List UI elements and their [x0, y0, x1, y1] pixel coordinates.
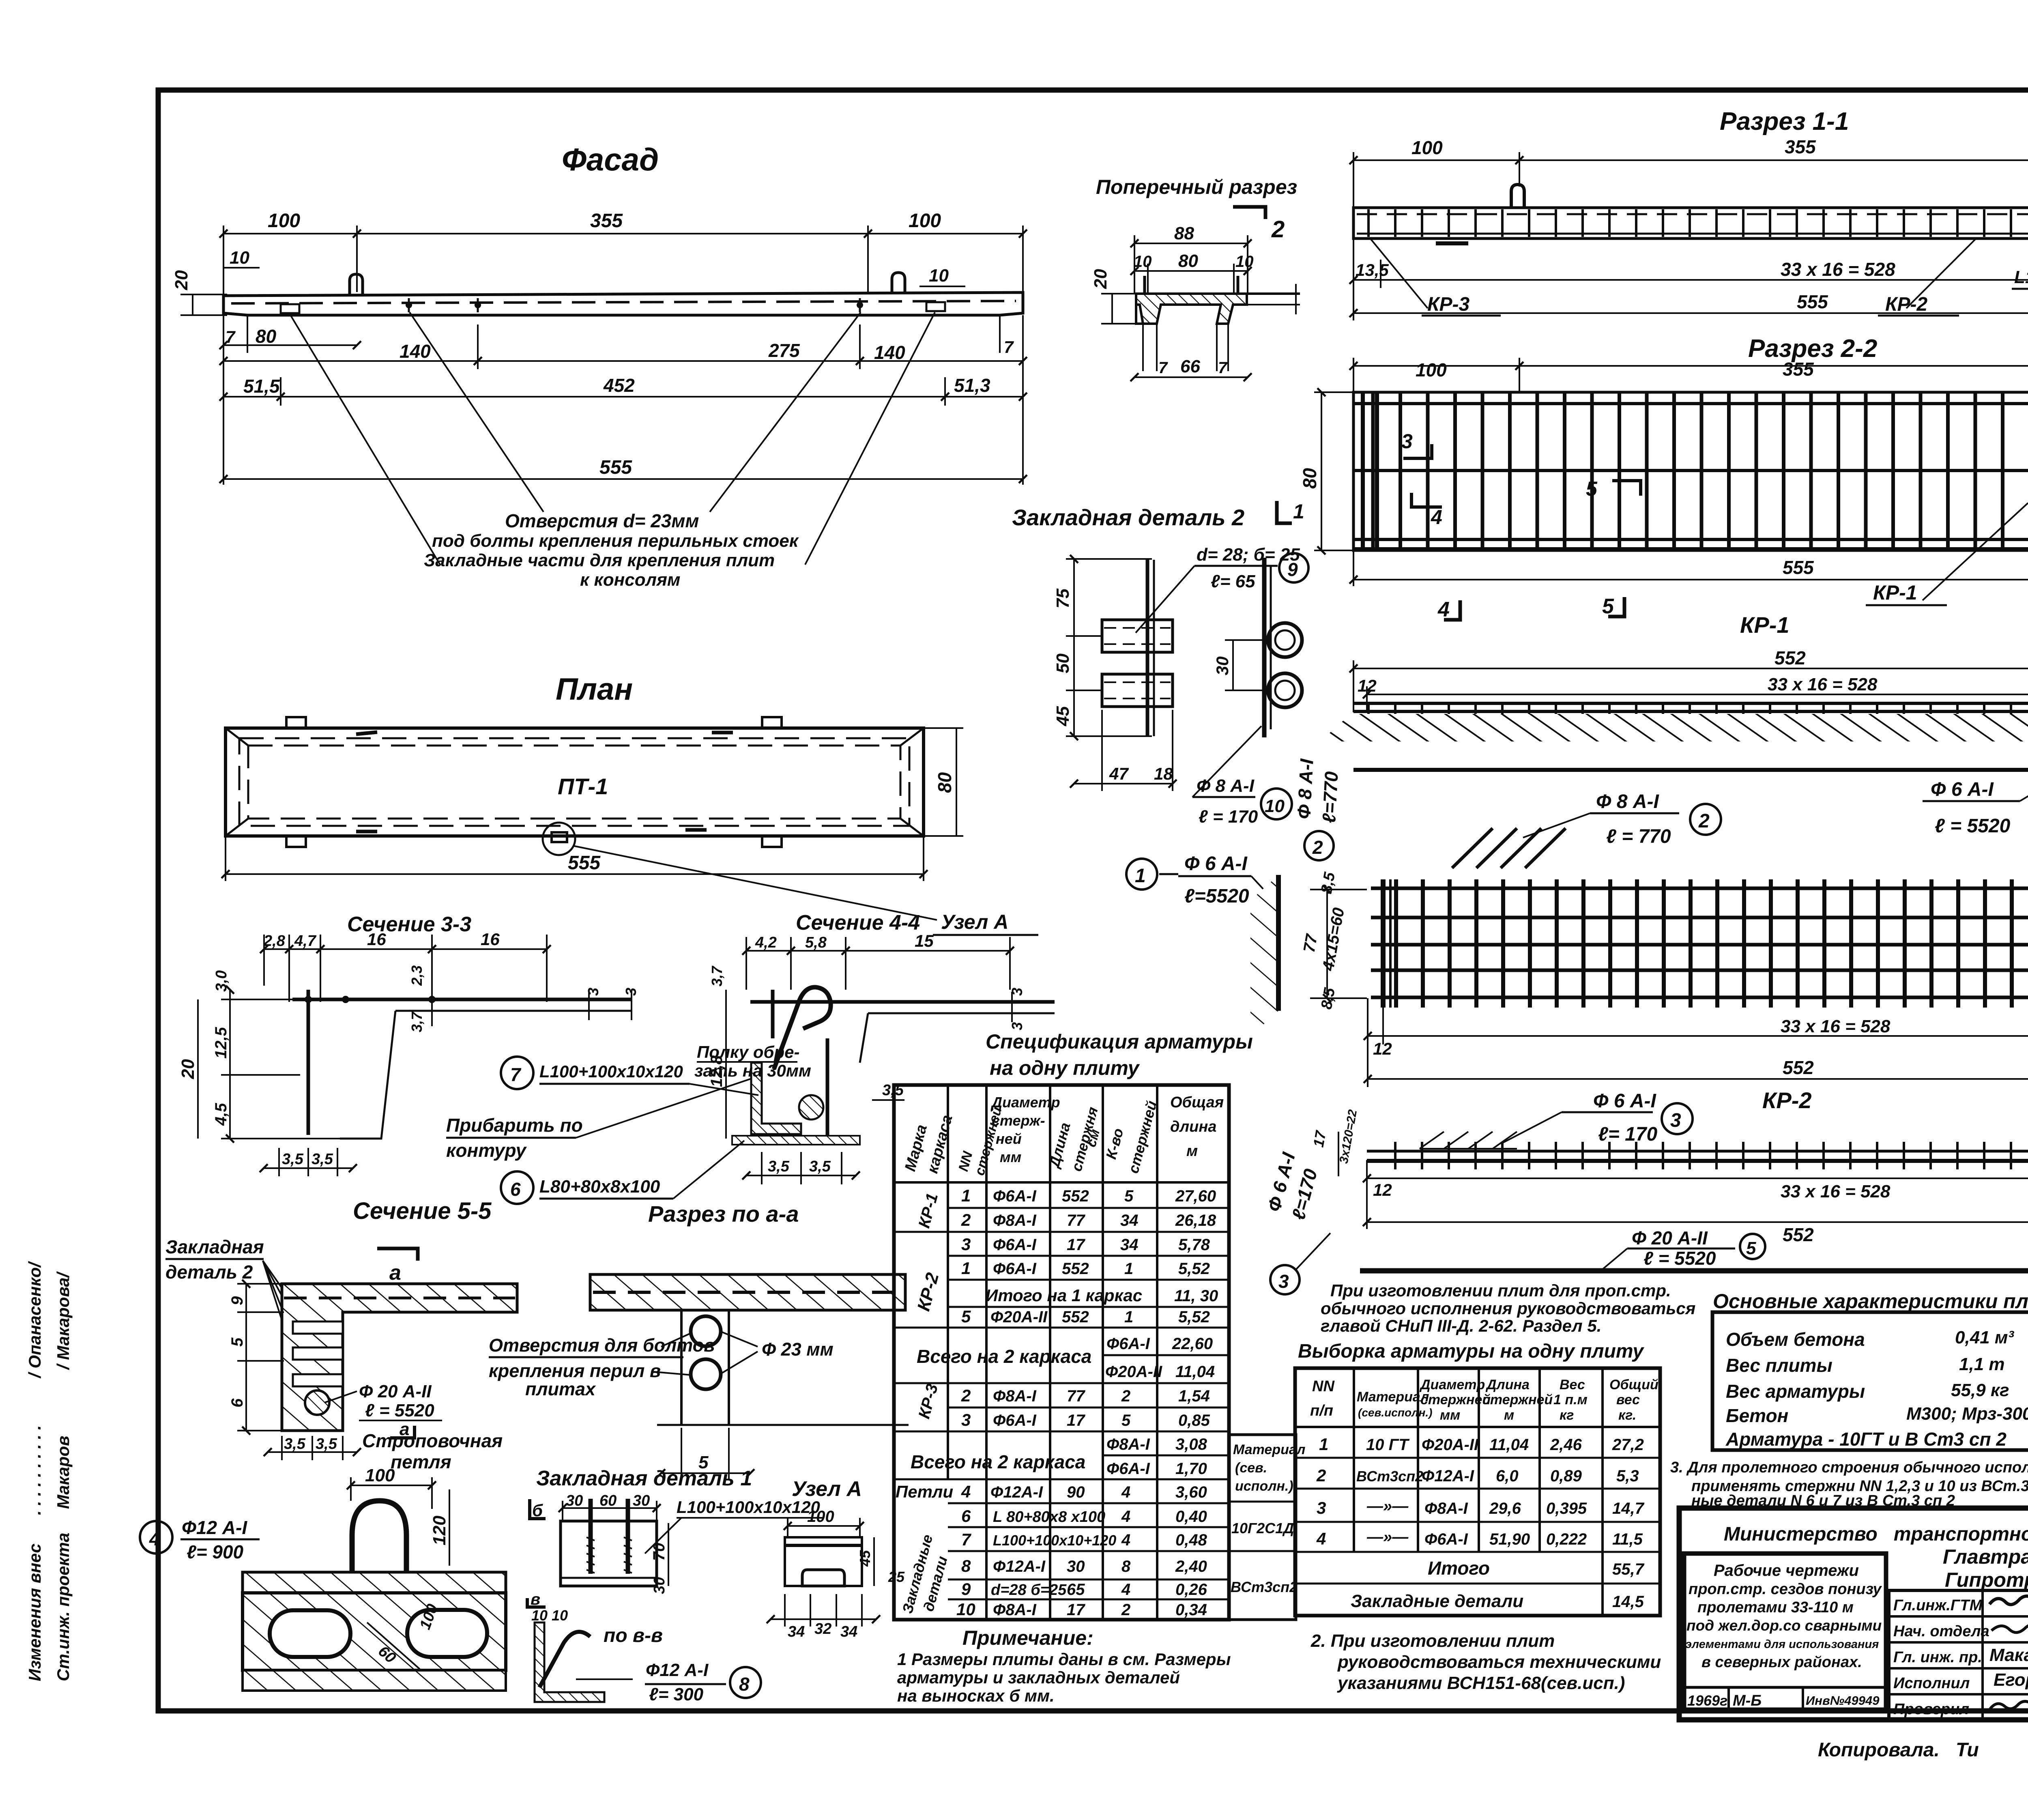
svg-text:55,9 кг: 55,9 кг	[1951, 1380, 2009, 1400]
svg-text:Закладная: Закладная	[165, 1236, 264, 1257]
svg-text:ℓ= 65: ℓ= 65	[1211, 572, 1255, 591]
svg-text:Сечение 5-5: Сечение 5-5	[353, 1198, 492, 1224]
svg-text:L100+100х10х120: L100+100х10х120	[2014, 267, 2028, 287]
svg-text:0,26: 0,26	[1175, 1581, 1207, 1599]
svg-text:под жел.дор.со сварными: под жел.дор.со сварными	[1686, 1617, 1882, 1634]
svg-text:деталь 2: деталь 2	[165, 1261, 253, 1283]
svg-text:Проверил: Проверил	[1893, 1701, 1969, 1718]
svg-text:50: 50	[1053, 653, 1073, 673]
strip chord double line	[1367, 1150, 2028, 1153]
svg-text:Закладная деталь 1: Закладная деталь 1	[536, 1467, 752, 1490]
svg-text:45: 45	[857, 1550, 873, 1567]
svg-text:м: м	[1504, 1407, 1514, 1423]
svg-text:3: 3	[961, 1410, 971, 1429]
svg-text:При изготовлении плит для проп: При изготовлении плит для проп.стр.	[1330, 1281, 1671, 1300]
svg-text:Инв№49949: Инв№49949	[1806, 1693, 1880, 1708]
svg-text:17: 17	[1067, 1236, 1085, 1254]
svg-text:d= 28; б= 25: d= 28; б= 25	[1197, 545, 1300, 565]
svg-text:80: 80	[934, 772, 955, 793]
rebar no.5 thick line	[1360, 1268, 2028, 1274]
sleeve 1	[1102, 620, 1173, 652]
svg-text:руководствоваться техническим: руководствоваться техническими	[1337, 1652, 1661, 1672]
dim 10 right	[919, 286, 965, 287]
svg-text:ней: ней	[996, 1130, 1022, 1147]
svg-text:Ф8А-I: Ф8А-I	[1424, 1500, 1468, 1517]
svg-text:Ф12А-I: Ф12А-I	[1422, 1467, 1474, 1485]
left view: anchor bar with two sleeves	[1146, 560, 1149, 736]
svg-text:10: 10	[1235, 253, 1254, 271]
bottom dims 3,5 3,5	[278, 1148, 280, 1176]
leader to uzel A text	[573, 846, 937, 920]
svg-text:Ф8А-I: Ф8А-I	[993, 1387, 1037, 1405]
ring 1	[1268, 623, 1302, 657]
svg-text:Главтранспроект: Главтранспроект	[1943, 1545, 2028, 1568]
svg-text:5: 5	[961, 1307, 971, 1326]
bottom dims 3,5 3,5	[281, 1436, 283, 1460]
svg-text:10: 10	[956, 1600, 975, 1619]
strip ticks	[1359, 702, 2028, 716]
svg-text:4,7: 4,7	[294, 933, 317, 950]
svg-text:555: 555	[1783, 557, 1814, 578]
svg-text:17: 17	[1067, 1601, 1085, 1619]
right dims 45/25	[873, 1537, 875, 1586]
plate with two studs	[561, 1521, 657, 1586]
svg-text:1,1 т: 1,1 т	[1959, 1354, 2005, 1374]
label 7: L100+100x10x120	[501, 1057, 533, 1089]
svg-text:Разрез 1-1: Разрез 1-1	[1720, 107, 1849, 135]
slab contour step	[860, 1013, 1055, 1063]
svg-text:ℓ = 170: ℓ = 170	[1199, 807, 1258, 827]
dims 30 60 30	[563, 1507, 657, 1509]
title block outer border	[1679, 1508, 2028, 1720]
angle with hook (po v-v)	[535, 1622, 604, 1702]
small inner plate marks	[356, 732, 377, 734]
spec vertical lines	[947, 1085, 949, 1479]
F23mm label	[720, 1331, 758, 1347]
svg-text:3: 3	[961, 1235, 971, 1254]
svg-text:Диаметр: Диаметр	[1419, 1377, 1485, 1392]
svg-text:75: 75	[1053, 589, 1073, 608]
hatched band below	[1320, 714, 2028, 741]
svg-text:6: 6	[510, 1179, 521, 1200]
svg-text:2,46: 2,46	[1550, 1436, 1582, 1454]
a-a mark above	[377, 1248, 418, 1261]
svg-text:33 х 16 = 528: 33 х 16 = 528	[1781, 259, 1895, 280]
svg-text:552: 552	[1062, 1187, 1089, 1205]
svg-text:Ф8А-I: Ф8А-I	[993, 1601, 1037, 1619]
svg-text:б: б	[532, 1501, 543, 1520]
svg-text:Гл.инж.ГТМ: Гл.инж.ГТМ	[1893, 1597, 1983, 1614]
svg-text:Ф6А-I: Ф6А-I	[1106, 1460, 1150, 1478]
svg-text:2: 2	[1316, 1466, 1326, 1485]
loop cross-section circle	[305, 1390, 329, 1415]
svg-text:Петли: Петли	[896, 1482, 953, 1501]
svg-text:Узел А: Узел А	[941, 911, 1008, 933]
bottom dims 3,5 3,5	[761, 1152, 763, 1184]
svg-text:кг.: кг.	[1618, 1407, 1636, 1423]
svg-text:2,3: 2,3	[408, 965, 425, 986]
plan outer rectangle	[226, 728, 924, 836]
svg-text:кг: кг	[1560, 1407, 1574, 1423]
heavy left vertical	[1381, 879, 1386, 1008]
mesh vertical bars	[1359, 393, 2028, 549]
svg-text:Примечание:: Примечание:	[962, 1627, 1093, 1649]
svg-text:452: 452	[603, 375, 635, 396]
svg-text:7: 7	[1158, 359, 1168, 377]
lifting loop left	[350, 274, 363, 296]
svg-text:5,8: 5,8	[805, 934, 827, 951]
svg-text:3,5: 3,5	[284, 1435, 306, 1453]
svg-text:4: 4	[961, 1482, 971, 1501]
svg-text:2: 2	[961, 1210, 971, 1229]
svg-text:Вес арматуры: Вес арматуры	[1726, 1381, 1865, 1402]
svg-text:34: 34	[788, 1623, 805, 1640]
svg-text:зать на 30мм: зать на 30мм	[694, 1061, 811, 1080]
plan inner dashed rect 1	[239, 738, 909, 826]
svg-text:контуру: контуру	[446, 1140, 527, 1161]
svg-text:петля: петля	[391, 1451, 451, 1472]
dim 51,5/452/51,3	[223, 396, 1023, 398]
svg-text:555: 555	[599, 457, 632, 478]
strip ticks	[1371, 1142, 2028, 1169]
svg-text:10: 10	[929, 266, 949, 286]
svg-text:10: 10	[1265, 796, 1285, 816]
svg-text:65: 65	[1067, 1581, 1085, 1599]
small hatch marks at strip left	[1420, 1132, 1444, 1149]
label 6: L80+80x8x100	[501, 1171, 533, 1204]
left dim chain 9/5/6	[245, 1284, 247, 1431]
svg-text:Длина: Длина	[1485, 1377, 1530, 1392]
plan chamfer corners	[226, 728, 248, 746]
dim 88	[1134, 243, 1248, 244]
dim 20 left rotated	[192, 294, 193, 315]
svg-text:Вес плиты: Вес плиты	[1726, 1355, 1833, 1376]
dim 552	[1367, 1221, 2028, 1223]
svg-text:3,5: 3,5	[768, 1158, 790, 1175]
svg-text:ℓ = 770: ℓ = 770	[1606, 826, 1671, 847]
svg-text:16: 16	[481, 930, 500, 949]
svg-text:11, 30: 11, 30	[1174, 1287, 1218, 1305]
svg-text:План: План	[556, 672, 633, 707]
dims below strip: 12 / 33x16=528 / 12	[1366, 1160, 1368, 1229]
left box bottom row	[1684, 1686, 1886, 1689]
svg-text:в северных районах.: в северных районах.	[1701, 1654, 1862, 1671]
svg-text:Министерство транспортного: Министерство транспортного строительства…	[1724, 1523, 2028, 1545]
plan inner dashed rect 2	[248, 746, 900, 819]
svg-text:проп.стр. сездов понизу: проп.стр. сездов понизу	[1689, 1581, 1882, 1598]
svg-text:главой СНиП III-Д. 2-62. Разд: главой СНиП III-Д. 2-62. Раздел 5.	[1321, 1316, 1601, 1335]
svg-text:100: 100	[1416, 359, 1447, 380]
svg-text:Ф 8 А-I: Ф 8 А-I	[1293, 758, 1317, 819]
svg-text:Сечение 4-4: Сечение 4-4	[796, 911, 920, 935]
rebar line no.1 (thick)	[1353, 768, 2028, 772]
svg-text:12: 12	[1373, 1039, 1392, 1058]
svg-text:5,78: 5,78	[1178, 1236, 1210, 1254]
svg-text:Узел А: Узел А	[792, 1477, 862, 1501]
svg-text:3. Для пролетного строения: 3. Для пролетного строения обычного испо…	[1670, 1459, 2028, 1476]
bottom chord line	[1357, 233, 2028, 235]
svg-text:7: 7	[1004, 337, 1014, 357]
dim 555 below	[1353, 550, 1354, 586]
svg-text:5: 5	[228, 1337, 246, 1347]
svg-text:10Г2С1Д: 10Г2С1Д	[1231, 1520, 1294, 1536]
dim line 100/355/100	[1353, 159, 2028, 161]
svg-text:3: 3	[585, 988, 602, 996]
stud 1 (threaded)	[589, 1499, 593, 1574]
svg-text:100: 100	[1411, 137, 1443, 158]
svg-text:3,08: 3,08	[1175, 1435, 1207, 1453]
svg-text:13,5: 13,5	[1356, 260, 1389, 279]
bottom dims 47 18	[1101, 710, 1103, 791]
svg-text:66: 66	[1180, 357, 1200, 376]
svg-text:ℓ= 900: ℓ= 900	[187, 1541, 244, 1562]
right view: plate with two rings	[1262, 558, 1267, 737]
svg-text:0,41 м³: 0,41 м³	[1955, 1328, 2014, 1347]
svg-text:25: 25	[888, 1569, 905, 1585]
svg-text:Всего на 2 каркаса: Всего на 2 каркаса	[917, 1346, 1091, 1367]
KR-2 mesh vertical bars	[1377, 879, 2028, 1008]
svg-text:12: 12	[1358, 676, 1377, 695]
svg-text:18: 18	[1154, 764, 1173, 783]
small dims left of mesh: 8,5 / 4x15=60 / 77 / 8,5	[1326, 890, 1328, 998]
svg-text:1: 1	[1135, 865, 1146, 887]
svg-text:3,5: 3,5	[316, 1435, 337, 1453]
svg-text:3,60: 3,60	[1175, 1483, 1207, 1501]
characteristics box	[1712, 1312, 2028, 1450]
svg-text:27,60: 27,60	[1175, 1187, 1216, 1205]
svg-text:0,85: 0,85	[1178, 1412, 1210, 1429]
svg-text:1 п.м: 1 п.м	[1553, 1392, 1588, 1407]
svg-text:90: 90	[1067, 1483, 1085, 1501]
dim 555	[1353, 312, 2028, 314]
right end dims	[588, 990, 590, 1020]
mesh horizontal bars	[1355, 402, 2028, 405]
svg-text:мм: мм	[1440, 1407, 1460, 1423]
svg-text:L80+80х8х100: L80+80х8х100	[539, 1177, 660, 1197]
svg-text:12: 12	[1373, 1180, 1392, 1199]
svg-text:к консолям: к консолям	[580, 570, 680, 590]
KR-2 mesh horizontal bars	[1371, 887, 2028, 890]
svg-text:4: 4	[1431, 506, 1442, 529]
svg-text:7: 7	[226, 327, 236, 346]
svg-text:45: 45	[1053, 706, 1073, 726]
svg-text:2: 2	[1698, 810, 1710, 832]
left web leg	[1136, 294, 1157, 324]
label F20 A-II l=5520 + strop loop	[324, 1391, 357, 1403]
svg-text:Поперечный разрез: Поперечный разрез	[1096, 176, 1297, 198]
beam body	[1353, 208, 2028, 239]
svg-text:Ф6А-I: Ф6А-I	[993, 1236, 1037, 1254]
svg-text:Ст.инж. проекта Макаров: Ст.инж. проекта Макаров / Макарова/	[54, 1271, 73, 1681]
svg-text:80: 80	[256, 326, 277, 347]
dim 80 rotated left	[1321, 392, 1322, 550]
loop bar (big U)	[352, 1501, 406, 1670]
svg-text:пролетами 33-110 м: пролетами 33-110 м	[1697, 1599, 1854, 1616]
svg-text:3,0: 3,0	[213, 970, 230, 992]
strip top chord double line	[1353, 702, 2028, 705]
svg-text:0,395: 0,395	[1546, 1500, 1587, 1517]
svg-text:355: 355	[1785, 136, 1816, 157]
svg-text:9: 9	[1287, 559, 1298, 580]
svg-text:30: 30	[651, 1577, 668, 1594]
svg-text:4,5: 4,5	[212, 1103, 230, 1126]
svg-text:КР-2: КР-2	[1762, 1087, 1812, 1113]
svg-text:355: 355	[1783, 359, 1814, 380]
svg-text:88: 88	[1174, 223, 1194, 243]
svg-text:п/п: п/п	[1310, 1402, 1333, 1419]
dim 552	[1368, 1078, 2028, 1080]
facade top dimension line 100/355/100	[223, 233, 1023, 234]
svg-text:Ф 23 мм: Ф 23 мм	[762, 1339, 834, 1360]
svg-text:L 80+80х8 х100: L 80+80х8 х100	[993, 1508, 1105, 1526]
a arrow mark	[390, 1426, 415, 1438]
sleeve 2	[1102, 674, 1173, 707]
top rebar dashed line	[1357, 213, 2028, 215]
svg-text:1: 1	[961, 1259, 971, 1278]
svg-text:Ф6А-I: Ф6А-I	[1106, 1335, 1150, 1353]
svg-text:4: 4	[1121, 1508, 1130, 1526]
horizontal top bar	[750, 1000, 1055, 1004]
vertical bar with dot	[771, 990, 775, 1038]
svg-text:3: 3	[1670, 1110, 1681, 1131]
svg-text:L100+100х10х120: L100+100х10х120	[539, 1062, 683, 1081]
plan dim 555	[225, 836, 226, 881]
svg-text:20: 20	[172, 270, 191, 290]
svg-text:12,5: 12,5	[212, 1027, 230, 1059]
svg-text:4: 4	[1316, 1529, 1326, 1548]
svg-text:7: 7	[510, 1064, 522, 1085]
dim 33x16=528	[1353, 279, 2028, 281]
svg-text:55,7: 55,7	[1612, 1560, 1645, 1578]
dim 10 left	[223, 267, 260, 269]
svg-text:а: а	[389, 1261, 401, 1285]
stirrup stubs above flange	[1143, 276, 1146, 294]
svg-text:14,5: 14,5	[1612, 1593, 1644, 1611]
b-v angle detail	[527, 1598, 546, 1607]
svg-text:2: 2	[1121, 1601, 1130, 1619]
svg-text:275: 275	[768, 340, 800, 361]
svg-text:5: 5	[1121, 1412, 1131, 1429]
corner embedded plates	[286, 717, 306, 728]
label F8 A-I l=770 circle 2	[1523, 813, 1590, 838]
main hatched corner block	[282, 1284, 517, 1431]
svg-text:0,222: 0,222	[1546, 1530, 1587, 1548]
svg-text:ℓ=770: ℓ=770	[1318, 771, 1342, 823]
svg-text:Ф6А-I: Ф6А-I	[993, 1187, 1037, 1205]
svg-text:11,04: 11,04	[1489, 1436, 1529, 1454]
dim 140/275/140	[223, 360, 1023, 362]
svg-text:3: 3	[1317, 1498, 1326, 1517]
svg-text:4: 4	[149, 1528, 160, 1549]
svg-text:стержней: стержней	[1482, 1392, 1553, 1407]
svg-text:29,6: 29,6	[1489, 1500, 1521, 1517]
svg-text:34: 34	[1120, 1236, 1139, 1254]
svg-text:КР-2: КР-2	[1885, 294, 1928, 315]
svg-text:8: 8	[1121, 1558, 1131, 1575]
svg-text:крепления перил в: крепления перил в	[489, 1360, 661, 1381]
svg-text:d=28 б=25: d=28 б=25	[991, 1581, 1067, 1599]
svg-text:9: 9	[961, 1579, 971, 1599]
svg-text:1: 1	[1319, 1435, 1328, 1454]
svg-text:Спецификация арматуры: Спецификация арматуры	[986, 1030, 1253, 1053]
svg-text:3: 3	[1009, 1022, 1025, 1030]
right dims 3 3	[1011, 992, 1013, 1022]
svg-text:8: 8	[739, 1674, 750, 1695]
svg-text:5: 5	[1586, 477, 1598, 500]
svg-text:в: в	[531, 1590, 540, 1608]
left dims 3,7/12,8	[725, 990, 727, 1139]
svg-text:2,8: 2,8	[263, 933, 286, 950]
svg-text:100: 100	[365, 1465, 395, 1485]
sleeve bars in left leg	[293, 1321, 343, 1334]
svg-text:30: 30	[566, 1492, 583, 1509]
svg-text:Разрез по а-а: Разрез по а-а	[648, 1201, 799, 1227]
label d=28 b=25 l=65 circle 9	[1136, 566, 1194, 633]
svg-text:Ф 8 А-I: Ф 8 А-I	[1197, 776, 1255, 796]
facade dashed rebar line	[231, 301, 1016, 303]
svg-text:0,48: 0,48	[1175, 1531, 1207, 1549]
middle band with loop ends	[243, 1593, 506, 1670]
svg-text:Ф 8 А-I: Ф 8 А-I	[1596, 791, 1659, 812]
svg-text:Прибарить по: Прибарить по	[446, 1115, 583, 1136]
svg-text:15: 15	[915, 931, 934, 950]
label F8A-I l=170 circle 10	[1192, 726, 1261, 797]
bottom dims 34 32 34	[784, 1594, 786, 1627]
caption KR-1 with leader	[1923, 503, 2028, 600]
thick edge bar of strip	[1276, 875, 1281, 1011]
vyborka table outer	[1295, 1368, 1660, 1616]
svg-text:33 х 16 = 528: 33 х 16 = 528	[1781, 1016, 1891, 1036]
horizontal top bar	[292, 998, 632, 1001]
svg-text:552: 552	[1062, 1260, 1089, 1278]
svg-text:77: 77	[1067, 1212, 1085, 1229]
svg-text:7: 7	[1218, 359, 1228, 377]
svg-text:Изменения внес . . . . .: Изменения внес . . . . . . . . . . / Опа…	[25, 1261, 44, 1681]
svg-text:32: 32	[814, 1620, 831, 1637]
svg-text:51,90: 51,90	[1489, 1530, 1530, 1548]
dim 100 top	[351, 1485, 432, 1486]
svg-text:Гл. инж. пр.: Гл. инж. пр.	[1893, 1649, 1982, 1666]
svg-text:33 х 16 = 528: 33 х 16 = 528	[1781, 1182, 1891, 1201]
svg-text:ℓ= 300: ℓ= 300	[649, 1685, 704, 1704]
signature table	[1889, 1590, 2028, 1720]
dim 3,5 near angle	[872, 1099, 904, 1101]
dim 20 left	[1111, 294, 1113, 324]
hatched end strip (slab edge)	[1250, 875, 1278, 1036]
svg-text:10: 10	[230, 248, 249, 268]
svg-text:2: 2	[1312, 837, 1323, 858]
lower dim lines	[1353, 239, 1354, 320]
svg-text:Отверстия d= 23мм: Отверстия d= 23мм	[505, 510, 699, 531]
svg-text:3,5: 3,5	[809, 1158, 831, 1175]
bottom hatched band	[243, 1670, 506, 1691]
svg-text:NN: NN	[1312, 1378, 1335, 1395]
svg-text:11,5: 11,5	[1612, 1530, 1643, 1548]
svg-text:Ф8А-I: Ф8А-I	[1106, 1435, 1150, 1453]
svg-text:0,34: 0,34	[1175, 1601, 1207, 1619]
uzel A circle on plan	[543, 823, 575, 855]
bottom dim 7 66 7	[1134, 376, 1248, 378]
svg-text:Ф 6 А-I: Ф 6 А-I	[1184, 853, 1248, 875]
svg-text:33 х 16 = 528: 33 х 16 = 528	[1768, 675, 1878, 694]
svg-text:5: 5	[1124, 1187, 1134, 1205]
svg-text:Ф6А-I: Ф6А-I	[993, 1260, 1037, 1278]
hatched slab band (top)	[243, 1572, 506, 1593]
vyborka horizontals	[1295, 1426, 1660, 1428]
svg-text:Ф12А-I: Ф12А-I	[993, 1558, 1046, 1575]
right edge line of slab	[1247, 292, 1300, 295]
svg-text:10 10: 10 10	[531, 1607, 568, 1624]
